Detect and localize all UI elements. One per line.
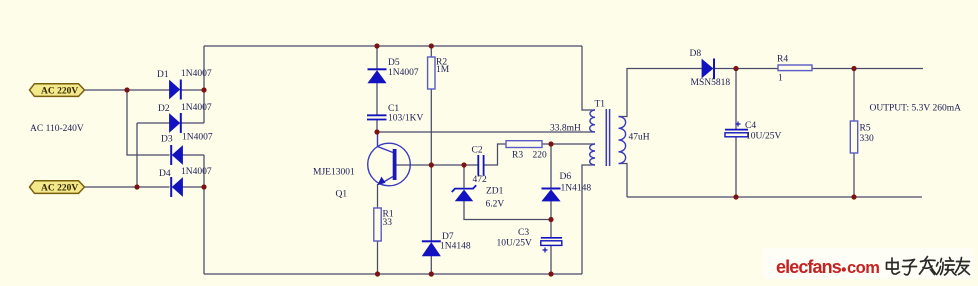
resistor R2 [428, 57, 450, 89]
svg-text:D2: D2 [158, 104, 170, 114]
svg-text:AC 110-240V: AC 110-240V [30, 124, 84, 134]
diode D1 [157, 69, 212, 100]
capacitor C3 [497, 228, 563, 253]
svg-text:1M: 1M [436, 65, 450, 75]
svg-text:1N4007: 1N4007 [181, 103, 212, 113]
svg-text:6.2V: 6.2V [486, 200, 505, 210]
wire AC2 to D4 [85, 186, 170, 188]
Chinese characters 电子发烧友 drawn as strokes [887, 257, 970, 276]
wire R2 column [430, 46, 432, 165]
wire R5 column [853, 69, 855, 198]
node bottom C4 [733, 194, 738, 199]
svg-text:C1: C1 [388, 104, 399, 114]
transistor Q1 [313, 132, 410, 200]
wire D1 anode [127, 89, 170, 91]
svg-text:D5: D5 [388, 58, 400, 68]
diode D2 [158, 103, 212, 133]
capacitor C2 [472, 146, 488, 186]
svg-text:1N4148: 1N4148 [440, 242, 471, 252]
node R3 out [548, 141, 553, 146]
wire D4 anode right [183, 186, 205, 188]
node AC2-bridge [134, 184, 139, 189]
svg-text:D7: D7 [442, 232, 454, 242]
svg-text:com: com [847, 259, 879, 277]
wire right plus bus upper [203, 46, 205, 123]
svg-text:elecfans: elecfans [776, 257, 842, 277]
port AC 220V top [30, 84, 85, 97]
diode D5 [368, 58, 419, 83]
wire C2 to R3 [484, 144, 506, 165]
wire D2 row [137, 122, 204, 124]
svg-text:1N4007: 1N4007 [181, 69, 212, 79]
diode D3 [161, 133, 213, 166]
transformer T1 [550, 100, 650, 167]
node ZD1-D6 [548, 217, 553, 222]
wire bottom rail right [627, 196, 922, 198]
resistor R5 [850, 121, 874, 153]
wire D8 to R4 [715, 68, 778, 70]
node base C2 [461, 162, 466, 167]
node top rail R2 [429, 43, 434, 48]
wire T1 primary return [582, 165, 595, 274]
svg-text:330: 330 [860, 134, 875, 144]
wire top rail [204, 45, 582, 47]
svg-text:OUTPUT: 5.3V 260mA: OUTPUT: 5.3V 260mA [870, 104, 962, 114]
diode D6 [542, 172, 592, 201]
capacitor C1 [367, 104, 424, 124]
elecfans watermark [763, 248, 974, 279]
T1 secondary winding 47uH [619, 117, 626, 164]
wire junction down to D3 row [127, 90, 170, 155]
svg-text:472: 472 [473, 175, 488, 185]
svg-text:103/1KV: 103/1KV [388, 114, 424, 124]
node base R2 [429, 162, 434, 167]
wire D6 column [550, 144, 552, 274]
svg-text:10U/25V: 10U/25V [746, 132, 782, 142]
node collector [374, 129, 379, 134]
svg-text:AC 220V: AC 220V [41, 184, 78, 194]
node D4 anode [201, 184, 206, 189]
wire top rail drop to T1 primary [582, 46, 595, 110]
svg-text:D1: D1 [157, 70, 169, 80]
diode D4 [159, 167, 212, 197]
T1 feedback winding [590, 144, 595, 165]
wire collector line to transformer [377, 131, 595, 133]
node bottom R5 [851, 194, 856, 199]
wire D7 column [430, 165, 432, 274]
wire right minus bus [203, 155, 205, 274]
svg-text:MJE13001: MJE13001 [313, 168, 355, 178]
svg-text:R5: R5 [860, 124, 871, 134]
zener ZD1 [452, 185, 505, 209]
svg-text:D4: D4 [159, 169, 171, 179]
svg-text:C3: C3 [518, 228, 529, 238]
svg-text:C2: C2 [472, 146, 483, 156]
svg-text:1: 1 [778, 74, 783, 84]
svg-text:R3: R3 [512, 151, 523, 161]
wire secondary top to D8 [619, 69, 703, 117]
wire D1 cathode to right bus [182, 89, 205, 91]
wire ZD1 column and link to D6 [464, 165, 551, 220]
node bottom C3 [548, 271, 553, 276]
svg-text:ZD1: ZD1 [486, 187, 504, 197]
wire base line [397, 164, 479, 166]
diode D7 [422, 232, 471, 256]
svg-text:1N4007: 1N4007 [388, 68, 419, 78]
capacitor C4 [725, 121, 782, 142]
svg-text:Q1: Q1 [336, 190, 348, 200]
svg-text:D8: D8 [690, 49, 702, 59]
node AC1-bridge [124, 87, 129, 92]
node R4 out [851, 66, 856, 71]
wire emitter to R1 [377, 184, 379, 274]
svg-text:1N4007: 1N4007 [181, 167, 212, 177]
node D8 out [733, 66, 738, 71]
resistor R4 [777, 55, 812, 84]
wire R3 to transformer [542, 143, 595, 145]
T1 primary winding 33.8mH [590, 110, 595, 132]
svg-text:D6: D6 [560, 172, 572, 182]
resistor R3 [506, 141, 547, 161]
svg-text:47uH: 47uH [629, 133, 650, 143]
svg-text:1N4007: 1N4007 [182, 133, 213, 143]
node bottom D7 [429, 271, 434, 276]
svg-text:T1: T1 [595, 100, 606, 110]
wire D3 anode right [183, 154, 205, 156]
wire AC1 to junction [85, 89, 128, 91]
svg-text:D3: D3 [161, 135, 173, 145]
svg-text:33: 33 [383, 218, 393, 228]
node top rail D5 [374, 43, 379, 48]
wire secondary bottom [619, 164, 628, 198]
svg-text:1N4148: 1N4148 [561, 184, 592, 194]
resistor R1 [374, 208, 394, 241]
svg-text:C4: C4 [745, 121, 756, 131]
svg-text:33.8mH: 33.8mH [550, 124, 581, 134]
node bottom R1 [375, 271, 380, 276]
svg-text:MSN5818: MSN5818 [691, 78, 731, 88]
svg-text:10U/25V: 10U/25V [497, 239, 533, 249]
port AC 220V bottom [30, 181, 85, 194]
wire bottom rail [204, 273, 582, 275]
wire C4 column [735, 69, 737, 198]
wire R4 to output [812, 68, 923, 70]
node D1 cathode [201, 87, 206, 92]
svg-text:220: 220 [533, 151, 548, 161]
wire D2 left down to AC2 [136, 123, 138, 187]
wire D5 column [376, 46, 378, 132]
T1 core [606, 109, 609, 166]
diode D8 [690, 49, 731, 88]
svg-text:R4: R4 [777, 55, 788, 65]
svg-text:AC 220V: AC 220V [41, 87, 78, 97]
